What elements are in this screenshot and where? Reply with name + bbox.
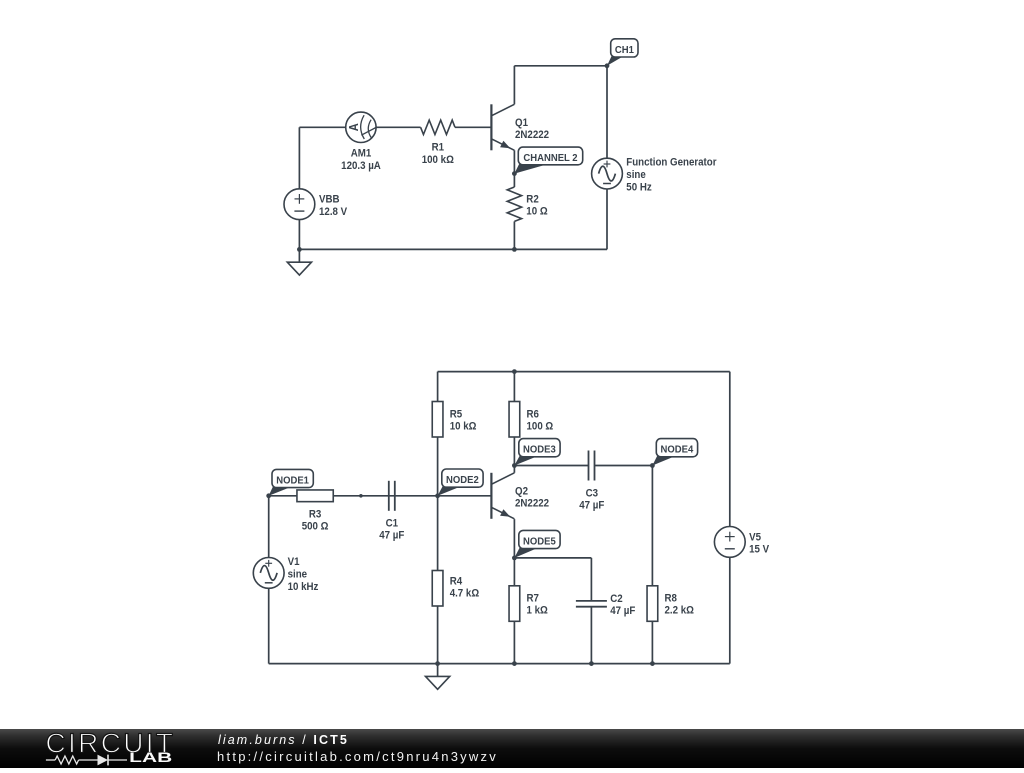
wire top rail to CH1 node bbox=[514, 65, 607, 67]
wire V5 to bottom rail bbox=[729, 557, 731, 663]
label R2 10 Ohm bbox=[526, 194, 547, 218]
svg-text:2N2222: 2N2222 bbox=[515, 498, 549, 510]
label R7 1 kOhm bbox=[527, 593, 548, 617]
flag NODE3 bbox=[514, 439, 560, 466]
label Q2 2N2222 bbox=[515, 486, 549, 510]
svg-text:V5: V5 bbox=[749, 532, 761, 544]
ground bottom circuit bbox=[426, 664, 450, 690]
top rail bbox=[438, 371, 730, 373]
label R6 100 Ohm bbox=[527, 409, 554, 433]
function generator source bbox=[592, 158, 623, 189]
wire function generator top bbox=[606, 66, 608, 158]
svg-text:LAB: LAB bbox=[129, 750, 172, 765]
svg-text:http://circuitlab.com/ct9nru4n: http://circuitlab.com/ct9nru4n3ywzv bbox=[217, 749, 498, 764]
node NODE2 bbox=[435, 493, 440, 498]
svg-text:47 µF: 47 µF bbox=[579, 500, 604, 512]
capacitor C2 bbox=[576, 601, 607, 607]
voltage source VBB bbox=[284, 189, 315, 220]
wire R2 to bottom rail bbox=[513, 221, 515, 249]
label C1 47 uF bbox=[379, 518, 404, 542]
svg-text:A: A bbox=[346, 123, 361, 131]
wire top rail left down to R5 bbox=[437, 372, 439, 402]
svg-text:R3: R3 bbox=[309, 509, 322, 521]
svg-text:sine: sine bbox=[288, 569, 308, 581]
svg-text:Q2: Q2 bbox=[515, 486, 528, 498]
source V1 bbox=[253, 558, 284, 589]
resistor R4 bbox=[432, 571, 443, 607]
svg-text:50 Hz: 50 Hz bbox=[626, 182, 651, 194]
wire top rail to R6 bbox=[513, 372, 515, 402]
svg-text:C2: C2 bbox=[610, 594, 623, 606]
node R2 bottom bbox=[512, 247, 517, 252]
flag CH1 bbox=[607, 39, 638, 66]
node NODE1 bbox=[266, 493, 271, 498]
wire C2 to bottom rail bbox=[590, 607, 592, 664]
capacitor C3 bbox=[589, 451, 595, 481]
voltage source V5 bbox=[714, 527, 745, 558]
wire Q1 emitter down to node bbox=[513, 150, 515, 173]
wire node to R2 bbox=[513, 174, 515, 187]
ammeter AM1 bbox=[346, 112, 376, 142]
svg-text:V1: V1 bbox=[288, 556, 300, 568]
resistor R5 bbox=[432, 402, 443, 438]
node C2 bottom bbox=[589, 661, 594, 666]
capacitor C1 bbox=[389, 481, 395, 511]
svg-text:sine: sine bbox=[626, 170, 646, 182]
svg-text:AM1: AM1 bbox=[351, 148, 372, 160]
svg-text:C1: C1 bbox=[386, 518, 399, 530]
node R7 bottom bbox=[512, 661, 517, 666]
label C3 47 uF bbox=[579, 488, 604, 512]
svg-text:NODE4: NODE4 bbox=[661, 444, 694, 455]
wire NODE1 to R3 bbox=[269, 495, 297, 497]
svg-text:R4: R4 bbox=[450, 576, 463, 588]
svg-text:R1: R1 bbox=[432, 142, 445, 154]
wire C3 to NODE4 bbox=[595, 465, 653, 467]
svg-text:2.2 kΩ: 2.2 kΩ bbox=[665, 605, 694, 617]
flag NODE1 bbox=[269, 469, 314, 495]
label R4 4.7 kOhm bbox=[450, 576, 479, 600]
logo CIRCUIT text bbox=[46, 727, 174, 758]
wire V1 bottom bbox=[268, 588, 270, 663]
wire top-left vertical VBB to top rail bbox=[298, 127, 300, 189]
svg-text:4.7 kΩ: 4.7 kΩ bbox=[450, 588, 479, 600]
svg-text:NODE3: NODE3 bbox=[523, 444, 556, 455]
wire R3 to C1 (through joint) bbox=[333, 495, 437, 497]
node R4 bottom bbox=[435, 661, 440, 666]
label Q1 2N2222 bbox=[515, 118, 549, 142]
resistor R7 bbox=[509, 586, 520, 622]
node CH1 bbox=[605, 63, 610, 68]
svg-text:C3: C3 bbox=[586, 488, 599, 500]
label VBB 12.8 V bbox=[319, 194, 347, 218]
wire top rail right down to V5 bbox=[729, 372, 731, 527]
wire R1 to Q1 base bbox=[455, 126, 491, 128]
label V1 sine 10 kHz bbox=[288, 556, 319, 593]
node top rail R6 bbox=[512, 369, 517, 374]
node NODE3 bbox=[512, 463, 517, 468]
svg-text:2N2222: 2N2222 bbox=[515, 130, 549, 142]
wire function generator bottom bbox=[606, 189, 608, 249]
flag CHANNEL 2 bbox=[514, 147, 582, 174]
wire V1 top bbox=[268, 496, 270, 558]
footer title liam.burns / ICT5 bbox=[218, 733, 349, 747]
svg-text:R7: R7 bbox=[527, 593, 540, 605]
wire Q2 base bbox=[438, 495, 492, 497]
wire R5 to NODE2 to R4 bbox=[437, 437, 439, 571]
svg-text:CH1: CH1 bbox=[615, 45, 635, 56]
svg-text:100 kΩ: 100 kΩ bbox=[422, 154, 454, 166]
wire Q2 collector to NODE3 bbox=[513, 466, 515, 473]
logo LAB text bbox=[129, 750, 172, 765]
wire R7 to bottom rail bbox=[513, 621, 515, 663]
wire VBB to ground node bbox=[298, 220, 300, 250]
resistor R3 bbox=[297, 490, 333, 502]
svg-text:NODE5: NODE5 bbox=[523, 536, 556, 547]
svg-text:47 µF: 47 µF bbox=[379, 530, 404, 542]
svg-text:Function Generator: Function Generator bbox=[626, 157, 716, 169]
flag NODE4 bbox=[652, 439, 697, 466]
wire NODE5 to R7 bbox=[513, 558, 515, 586]
svg-text:NODE2: NODE2 bbox=[446, 475, 479, 486]
svg-text:R8: R8 bbox=[665, 593, 678, 605]
wire NODE5 to C2 branch bbox=[514, 558, 591, 600]
resistor R8 bbox=[647, 586, 658, 622]
node emitter junction bbox=[512, 171, 517, 176]
svg-text:R5: R5 bbox=[450, 409, 463, 421]
svg-text:liam.burns / ICT5: liam.burns / ICT5 bbox=[218, 733, 349, 747]
wire R4 to bottom rail bbox=[437, 606, 439, 664]
wire R8 to bottom rail bbox=[651, 621, 653, 663]
transistor Q1 bbox=[491, 104, 514, 150]
footer bar bbox=[0, 729, 1024, 768]
wire Q2 emitter down to NODE5 bbox=[513, 519, 515, 558]
resistor R2 bbox=[507, 187, 521, 221]
svg-text:47 µF: 47 µF bbox=[610, 606, 635, 618]
footer url bbox=[217, 749, 498, 764]
wire ammeter to R1 bbox=[376, 126, 421, 128]
wire R6 to NODE3 bbox=[513, 437, 515, 466]
bottom rail top circuit bbox=[299, 248, 607, 250]
label R3 500 Ohm bbox=[302, 509, 329, 533]
wire NODE4 to R8 bbox=[651, 466, 653, 586]
wire Q1 collector up bbox=[513, 66, 515, 105]
svg-text:1 kΩ: 1 kΩ bbox=[527, 605, 548, 617]
label R1 100 kOhm bbox=[422, 142, 454, 166]
svg-text:100 Ω: 100 Ω bbox=[527, 421, 554, 433]
label AM1 value bbox=[341, 148, 381, 172]
svg-text:120.3 µA: 120.3 µA bbox=[341, 160, 381, 172]
node NODE4 bbox=[650, 463, 655, 468]
node ground junction bbox=[297, 247, 302, 252]
svg-text:Q1: Q1 bbox=[515, 118, 528, 130]
label R5 10 kOhm bbox=[450, 409, 477, 433]
svg-text:500 Ω: 500 Ω bbox=[302, 521, 329, 533]
svg-text:12.8 V: 12.8 V bbox=[319, 206, 347, 218]
svg-text:R6: R6 bbox=[527, 409, 540, 421]
node NODE5 bbox=[512, 556, 517, 561]
wire NODE3 to C3 bbox=[514, 465, 588, 467]
logo resistor-diode line bbox=[46, 755, 127, 766]
svg-text:R2: R2 bbox=[526, 194, 539, 206]
label V5 15 V bbox=[749, 532, 769, 556]
svg-text:NODE1: NODE1 bbox=[276, 475, 309, 486]
joint dot R3-C1 wire bbox=[359, 494, 363, 498]
svg-text:CHANNEL 2: CHANNEL 2 bbox=[523, 153, 578, 164]
label C2 47 uF bbox=[610, 594, 635, 618]
ground top circuit bbox=[287, 249, 311, 275]
resistor R1 bbox=[421, 120, 455, 134]
label R8 2.2 kOhm bbox=[665, 593, 694, 617]
svg-text:10 Ω: 10 Ω bbox=[526, 206, 547, 218]
bottom rail bbox=[269, 663, 730, 665]
flag NODE2 bbox=[438, 469, 483, 496]
resistor R6 bbox=[509, 402, 520, 438]
node R8 bottom bbox=[650, 661, 655, 666]
svg-text:10 kΩ: 10 kΩ bbox=[450, 421, 477, 433]
transistor Q2 bbox=[491, 473, 514, 519]
wire top rail left (VBB corner to ammeter) bbox=[299, 126, 345, 128]
svg-text:15 V: 15 V bbox=[749, 544, 769, 556]
svg-text:VBB: VBB bbox=[319, 194, 340, 206]
flag NODE5 bbox=[514, 530, 560, 558]
svg-text:10 kHz: 10 kHz bbox=[288, 581, 319, 593]
label Function Generator bbox=[626, 157, 716, 194]
